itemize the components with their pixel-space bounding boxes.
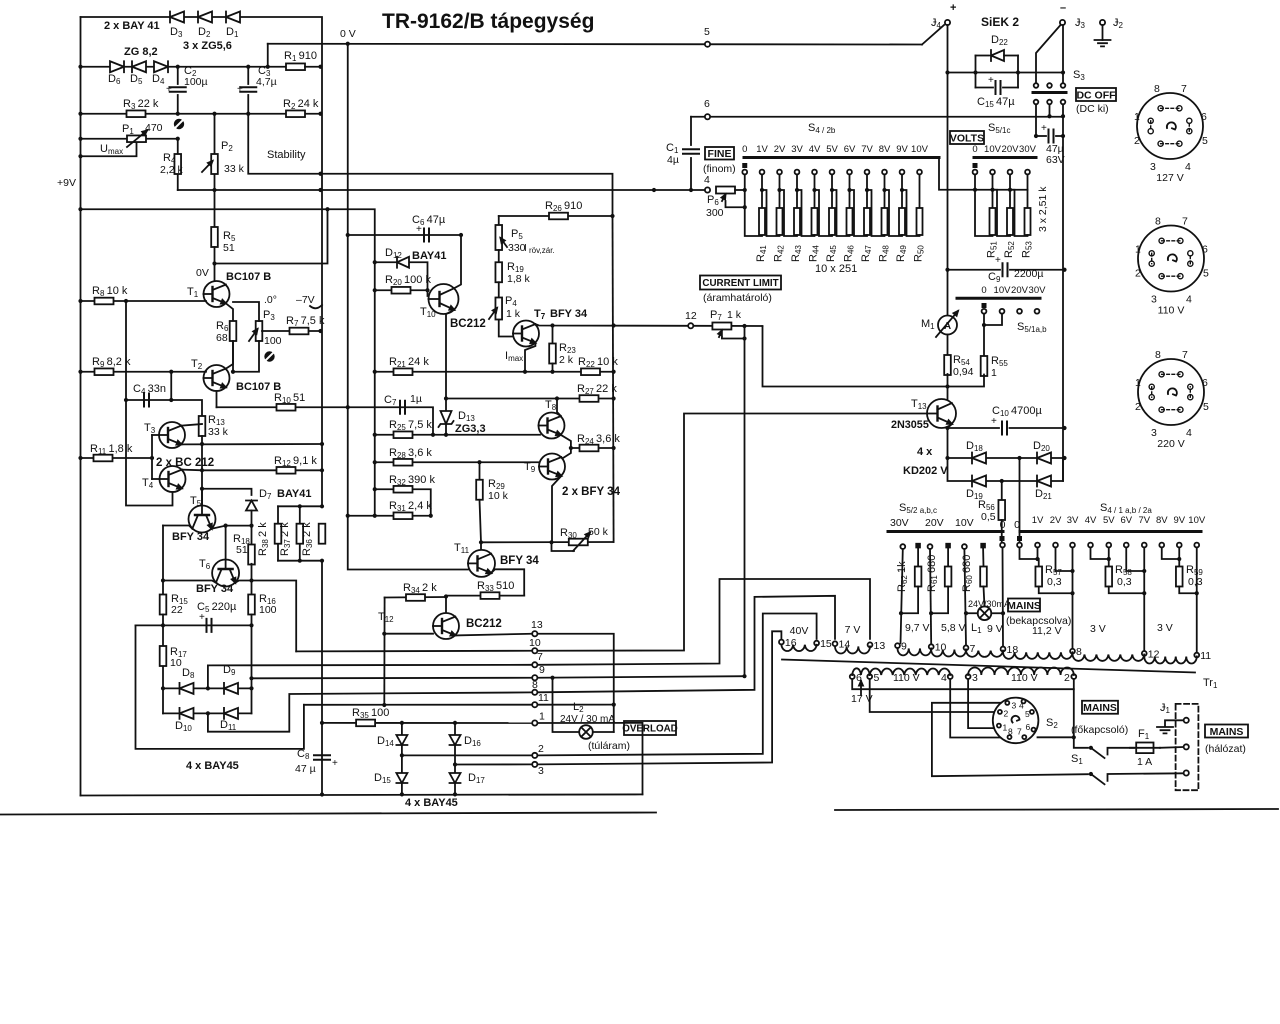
svg-text:S5/1c: S5/1c (988, 122, 1010, 135)
transistor T7 (513, 321, 539, 347)
wire S3 right top (1062, 73, 1064, 84)
svg-text:4: 4 (704, 174, 710, 186)
resistor R61 (945, 567, 952, 587)
svg-text:(áramhatároló): (áramhatároló) (703, 292, 772, 304)
svg-text:7V: 7V (1138, 515, 1150, 526)
svg-text:3 V: 3 V (1090, 623, 1106, 635)
wire R61 stem (947, 548, 949, 566)
wire R53 bottom link (1010, 190, 1028, 236)
svg-text:9V: 9V (1173, 515, 1185, 526)
resistor R45 (829, 208, 835, 235)
wire C15 left (976, 87, 994, 89)
diode D11 (224, 708, 238, 719)
wire D15 bottom (401, 783, 403, 794)
wire T6 collector (163, 581, 216, 583)
svg-text:0,94: 0,94 (953, 366, 974, 378)
wire C1 stem (690, 117, 692, 145)
wire S2 pin3 run (932, 703, 1088, 776)
wire tap 1V drop (761, 175, 763, 208)
wire R26 row (499, 215, 613, 217)
contact S3 top (1034, 83, 1039, 88)
wire tap 7V drop (866, 175, 868, 208)
svg-text:P7: P7 (710, 309, 722, 322)
primary terminal 5 (867, 674, 872, 679)
winding terminal 7 (964, 645, 969, 650)
diode D10 (180, 708, 194, 719)
wire T3 lower row (181, 443, 322, 445)
wire P2 bottom (214, 175, 216, 190)
svg-text:T7: T7 (534, 308, 546, 321)
svg-text:.0°: .0° (264, 294, 277, 306)
lamp L2 (579, 725, 593, 739)
resistor R9 (95, 368, 114, 375)
svg-text:0: 0 (1000, 519, 1006, 531)
resistor R21 (394, 368, 413, 375)
wiper mark S5/1c (973, 163, 978, 168)
capacitor C5 (207, 619, 212, 632)
wire T5 emitter node (212, 526, 252, 529)
resistor R17 (160, 646, 167, 666)
resistor R32 (394, 486, 413, 493)
terminal J3 (1060, 20, 1065, 25)
meter M1 (938, 316, 957, 335)
resistor R58 (1105, 567, 1112, 587)
winding 7-18 (966, 651, 1003, 657)
resistor R23 (549, 344, 556, 364)
wire M1 to R54 (947, 335, 949, 357)
svg-text:R50: R50 (913, 245, 926, 262)
terminal 2 (532, 753, 537, 758)
svg-text:R47: R47 (860, 245, 873, 262)
resistor R50 (917, 208, 923, 235)
diode D17 (450, 773, 461, 783)
wire row2 (402, 754, 532, 756)
wire P4 to T7 base (499, 320, 513, 337)
svg-text:5: 5 (1203, 268, 1209, 280)
wire R34 corner down (383, 598, 385, 706)
wire D13 bottom (445, 424, 447, 435)
wire P2 stem (214, 114, 216, 153)
wire tap 4V drop (814, 175, 816, 208)
svg-text:10V: 10V (1188, 515, 1206, 526)
wire R60 stem (982, 548, 984, 566)
resistor R47 (864, 208, 870, 235)
svg-text:7 V: 7 V (845, 624, 861, 636)
diode D22 (991, 50, 1004, 61)
wire terminal6 row (691, 116, 1063, 118)
svg-text:R62 1k: R62 1k (896, 561, 909, 592)
svg-text:BFY 34: BFY 34 (500, 555, 539, 567)
terminal 3 (532, 762, 537, 767)
svg-text:CURRENT LIMIT: CURRENT LIMIT (702, 278, 778, 289)
potentiometer P2 (211, 154, 218, 174)
wire tap 8V drop (884, 175, 886, 208)
potentiometer P5 (495, 225, 502, 250)
socket S2 (993, 698, 1039, 744)
transistor T12 (433, 613, 459, 639)
wire T2 emitter drop (216, 391, 218, 407)
wire R10 row (217, 406, 348, 408)
transistor T6 (212, 560, 239, 587)
svg-text:R25 7,5 k: R25 7,5 k (389, 419, 432, 432)
resistor R54 (944, 355, 951, 375)
svg-text:R21 24 k: R21 24 k (389, 356, 429, 369)
switch S4/2b bar (744, 156, 939, 159)
resistor R57 (1035, 567, 1042, 587)
transistor T4 (160, 466, 186, 492)
svg-text:+: + (988, 75, 994, 86)
wire D22 top (976, 55, 990, 57)
wire S2 to S1 (1074, 737, 1088, 748)
svg-text:3: 3 (972, 672, 978, 684)
svg-text:4µ: 4µ (667, 154, 679, 166)
svg-text:4: 4 (1186, 427, 1192, 439)
mains dashed box (1176, 704, 1199, 790)
svg-text:T12: T12 (378, 611, 394, 624)
svg-text:110 V: 110 V (893, 672, 920, 684)
contact S4/2b 6V (847, 170, 852, 175)
wire row10 (296, 650, 531, 653)
switch S5/1c bar (974, 156, 1036, 159)
switch S4/1 bar (1020, 530, 1201, 533)
wire volts bus (939, 158, 1028, 190)
svg-text:R7 7,5 k: R7 7,5 k (286, 315, 325, 328)
wire S5/1a jog (984, 314, 1002, 325)
resistor R56 (998, 500, 1005, 520)
wire R44 bottom link (797, 190, 815, 236)
svg-text:BFY 34: BFY 34 (172, 531, 210, 543)
wire row7 (208, 665, 532, 689)
switch S1 lower (1089, 772, 1093, 776)
wire R59 stem (1178, 559, 1180, 567)
wire row7 right staircase (538, 579, 870, 665)
svg-text:S5/1a,b: S5/1a,b (1017, 321, 1047, 334)
transistor T9 (539, 454, 565, 480)
svg-text:0V: 0V (196, 267, 209, 279)
wire D14-D15 (401, 745, 403, 773)
svg-text:4: 4 (1185, 161, 1191, 173)
svg-text:OVERLOAD: OVERLOAD (622, 724, 678, 735)
svg-text:9: 9 (901, 641, 907, 653)
wire C4 to T2 base (170, 372, 172, 400)
svg-text:D18: D18 (966, 440, 983, 453)
svg-text:2: 2 (538, 743, 544, 755)
transistor T8 (539, 413, 565, 439)
svg-text:R12 9,1 k: R12 9,1 k (274, 455, 317, 468)
svg-text:22: 22 (171, 604, 183, 616)
wire R29 bottom (480, 500, 482, 550)
wire D18 row (948, 457, 1064, 459)
svg-text:0,5: 0,5 (981, 511, 996, 523)
svg-text:3 x ZG5,6: 3 x ZG5,6 (183, 40, 232, 52)
contact S4/2b 5V (830, 170, 835, 175)
tube socket 127V (1137, 93, 1203, 159)
svg-text:R44: R44 (808, 245, 821, 262)
wire R23 stem (552, 326, 554, 344)
wire R1 riser (267, 44, 269, 67)
svg-text:3 x 2,51 k: 3 x 2,51 k (1037, 186, 1049, 232)
lamp L1 (978, 606, 992, 620)
contact S4/1 0 (1017, 543, 1022, 548)
contact S5/1c 30V (1025, 170, 1030, 175)
svg-text:R2 24 k: R2 24 k (283, 98, 319, 111)
wire C16 row (1036, 135, 1046, 137)
wire 0V rail (348, 44, 468, 570)
primary winding 3-2 110V (968, 667, 1074, 675)
wire C6 row (348, 234, 461, 236)
wire T12 collector stem (445, 597, 447, 614)
wire T3 base (152, 434, 159, 436)
current limit box (700, 276, 781, 290)
wire T4 upper (182, 469, 202, 472)
resistor R8 (95, 298, 114, 305)
svg-text:Ɉ4: Ɉ4 (931, 17, 942, 30)
terminal J4 (945, 20, 950, 25)
contact S4/1 9V (1177, 543, 1182, 548)
wire rail x613 upper (613, 216, 614, 542)
svg-text:13: 13 (874, 640, 886, 652)
svg-text:13: 13 (531, 619, 543, 631)
wiper S5/2 20V (945, 543, 951, 549)
contact S4/2b 0 (742, 170, 747, 175)
wire plus rail x947 (947, 25, 949, 316)
capacitor C4 (144, 394, 149, 407)
socket S2 pins (1005, 701, 1009, 705)
svg-text:7: 7 (1182, 349, 1188, 361)
wire R21 row (375, 371, 614, 373)
terminal 8 (532, 690, 537, 695)
resistor R12 (277, 467, 296, 474)
wire zener row (81, 66, 287, 68)
primary terminal 4 (948, 674, 953, 679)
svg-text:C10 4700µ: C10 4700µ (992, 405, 1043, 418)
wire T5 collector drop (163, 526, 192, 529)
wire R55 stem (983, 314, 985, 358)
wire R29 stem (479, 462, 481, 480)
svg-text:3: 3 (1150, 161, 1156, 173)
wire T6 emitter (235, 581, 251, 583)
wire row11 (304, 704, 532, 706)
mains-bekapcsolva box (1008, 599, 1040, 612)
svg-text:47 µ: 47 µ (295, 763, 316, 775)
svg-text:20V: 20V (925, 517, 944, 529)
wire R56 bottom (1001, 520, 1003, 543)
svg-text:FINE: FINE (708, 148, 732, 160)
terminal 5 (705, 42, 710, 47)
contact S4/2b 9V (900, 170, 905, 175)
wire tap 5V drop (831, 175, 833, 208)
core line Tr1 (782, 660, 1195, 673)
wire T3 upper to net (181, 424, 202, 426)
svg-text:8: 8 (1008, 727, 1013, 737)
potentiometer P4 (495, 298, 502, 320)
resistor R41 (759, 208, 765, 235)
wire C10 row (948, 427, 1000, 429)
svg-text:R49: R49 (895, 245, 908, 262)
switch S3 bar (1033, 91, 1066, 94)
resistor R16 (248, 595, 255, 615)
winding 7V (835, 646, 870, 653)
wire S5/2 20V drop (930, 549, 931, 644)
wire T7 emitter (525, 343, 535, 372)
diode D6 (110, 61, 124, 72)
resistor R27 (580, 395, 599, 402)
svg-text:R38 2 k: R38 2 k (257, 522, 270, 556)
svg-text:8: 8 (1076, 646, 1082, 658)
capacitor C2 (170, 87, 186, 92)
svg-text:T6: T6 (199, 558, 211, 571)
contact S4/2b 1V (760, 170, 765, 175)
potentiometer P6 (716, 187, 735, 194)
resistor R49 (899, 208, 905, 235)
svg-text:4: 4 (941, 672, 947, 684)
svg-text:9 V: 9 V (987, 623, 1003, 635)
resistor R10 (277, 404, 296, 411)
wire C5 row (136, 624, 252, 626)
svg-text:5,8 V: 5,8 V (941, 622, 966, 634)
wire R54 bottom (947, 374, 949, 400)
diode D20 (1037, 453, 1051, 464)
wire T4 base (152, 478, 160, 480)
svg-text:15: 15 (820, 638, 832, 650)
contact S5/1a 30V (1035, 309, 1040, 314)
fuse F1 (1136, 743, 1153, 754)
wire T5 coll vert (162, 526, 164, 595)
wire lamp L2 left (553, 678, 580, 732)
wire R33 row (446, 595, 524, 597)
dc off box (1076, 88, 1116, 101)
wire D22 top right (1004, 55, 1018, 57)
resistor R29 (476, 480, 483, 500)
svg-text:6: 6 (1202, 244, 1208, 256)
wire P1 row (81, 138, 178, 140)
svg-text:D13: D13 (458, 410, 475, 423)
svg-text:R30: R30 (560, 527, 577, 540)
wire cluster bottom (278, 560, 322, 562)
svg-text:6: 6 (1026, 722, 1031, 732)
svg-text:6: 6 (704, 98, 710, 110)
wire T13 emitter drop (948, 424, 953, 458)
resistor R33 (481, 592, 500, 599)
winding terminal 11 (1194, 653, 1199, 658)
svg-text:R26 910: R26 910 (545, 200, 582, 213)
resistor R46 (847, 208, 853, 235)
resistor R36 (319, 524, 326, 544)
wire row9 right (538, 676, 745, 678)
svg-text:2N3055: 2N3055 (891, 419, 929, 431)
contact S4/2b 7V (865, 170, 870, 175)
wire R20 row (375, 289, 428, 291)
overload box (624, 721, 676, 735)
wire S3 left bottom (1035, 105, 1037, 137)
terminal 12 (688, 323, 693, 328)
svg-text:R27 22 k: R27 22 k (577, 383, 617, 396)
wire minus rail x1063 b (1062, 116, 1064, 481)
resistor R7 (290, 328, 309, 335)
wire T9 emitter down (552, 476, 561, 542)
svg-text:+: + (332, 758, 338, 769)
svg-text:SiEK 2: SiEK 2 (981, 15, 1019, 29)
wire R4 stem (177, 139, 179, 153)
wire R47 bottom link (850, 190, 868, 236)
wire tap 3V drop (796, 175, 798, 208)
svg-text:0: 0 (981, 285, 986, 296)
wire row11 right (538, 704, 614, 706)
wire stability to R26 (321, 174, 613, 216)
wire to J4 blade (922, 25, 944, 45)
svg-text:127 V: 127 V (1156, 172, 1183, 184)
contact S4/1 6V (1124, 543, 1129, 548)
svg-text:BC212: BC212 (466, 618, 502, 630)
diode D21 (1037, 476, 1051, 487)
svg-text:S4 / 1 a,b / 2a: S4 / 1 a,b / 2a (1100, 502, 1152, 515)
wire R56 stem (1001, 481, 1003, 500)
resistor R26 (549, 213, 568, 220)
resistor R52 (1007, 208, 1013, 235)
winding terminal 13 (868, 642, 873, 647)
svg-text:3V: 3V (791, 144, 803, 155)
svg-text:110 V: 110 V (1011, 672, 1038, 684)
terminal 7 (532, 662, 537, 667)
svg-text:30V: 30V (1029, 285, 1047, 296)
wire S4 3V drop (1072, 547, 1074, 651)
contact S4/2b 4V (812, 170, 817, 175)
resistor R42 (777, 208, 783, 235)
contact S4/2b 10V (917, 170, 922, 175)
svg-text:30V: 30V (1019, 144, 1037, 155)
svg-text:BAY41: BAY41 (277, 488, 311, 500)
svg-text:+9V: +9V (57, 177, 76, 189)
svg-text:0: 0 (1014, 519, 1020, 531)
svg-text:4V: 4V (809, 144, 821, 155)
contact S5/1c 20V (1008, 170, 1013, 175)
winding 40V (781, 645, 816, 651)
svg-text:Umax: Umax (100, 143, 123, 156)
svg-text:M1: M1 (921, 318, 935, 331)
svg-text:(hálózat): (hálózat) (1205, 743, 1246, 755)
wire R19-P4 (498, 282, 500, 297)
svg-text:T13: T13 (911, 398, 927, 411)
winding terminal 8 (1070, 649, 1075, 654)
resistor R19 (495, 262, 502, 282)
wire C9 row (948, 269, 1001, 271)
contact S5/2 10V a (962, 544, 967, 549)
capacitor C6 (424, 229, 429, 242)
svg-text:51: 51 (236, 544, 248, 556)
contact S5/2 20V a (928, 544, 933, 549)
wire D7 branch (202, 489, 252, 495)
svg-text:10 x 251: 10 x 251 (815, 263, 857, 275)
wire D8 row (163, 687, 252, 689)
svg-text:P1: P1 (122, 123, 134, 136)
svg-text:300: 300 (706, 207, 724, 219)
terminal mains top (1184, 718, 1189, 723)
resistor R24 (580, 445, 599, 452)
svg-text:D6: D6 (108, 73, 121, 86)
svg-text:DC OFF: DC OFF (1076, 89, 1116, 101)
svg-text:T3: T3 (144, 422, 156, 435)
wire T12 base row (384, 633, 433, 635)
svg-text:Ɉ1: Ɉ1 (1160, 702, 1171, 715)
svg-text:R52: R52 (1003, 241, 1016, 258)
svg-text:5: 5 (1202, 135, 1208, 147)
wire T9 collector (563, 448, 571, 458)
diode D18 (972, 453, 986, 464)
svg-text:D12: D12 (385, 247, 402, 260)
svg-text:33 k: 33 k (208, 426, 229, 438)
svg-text:2V: 2V (1050, 515, 1062, 526)
svg-text:C7: C7 (384, 394, 397, 407)
